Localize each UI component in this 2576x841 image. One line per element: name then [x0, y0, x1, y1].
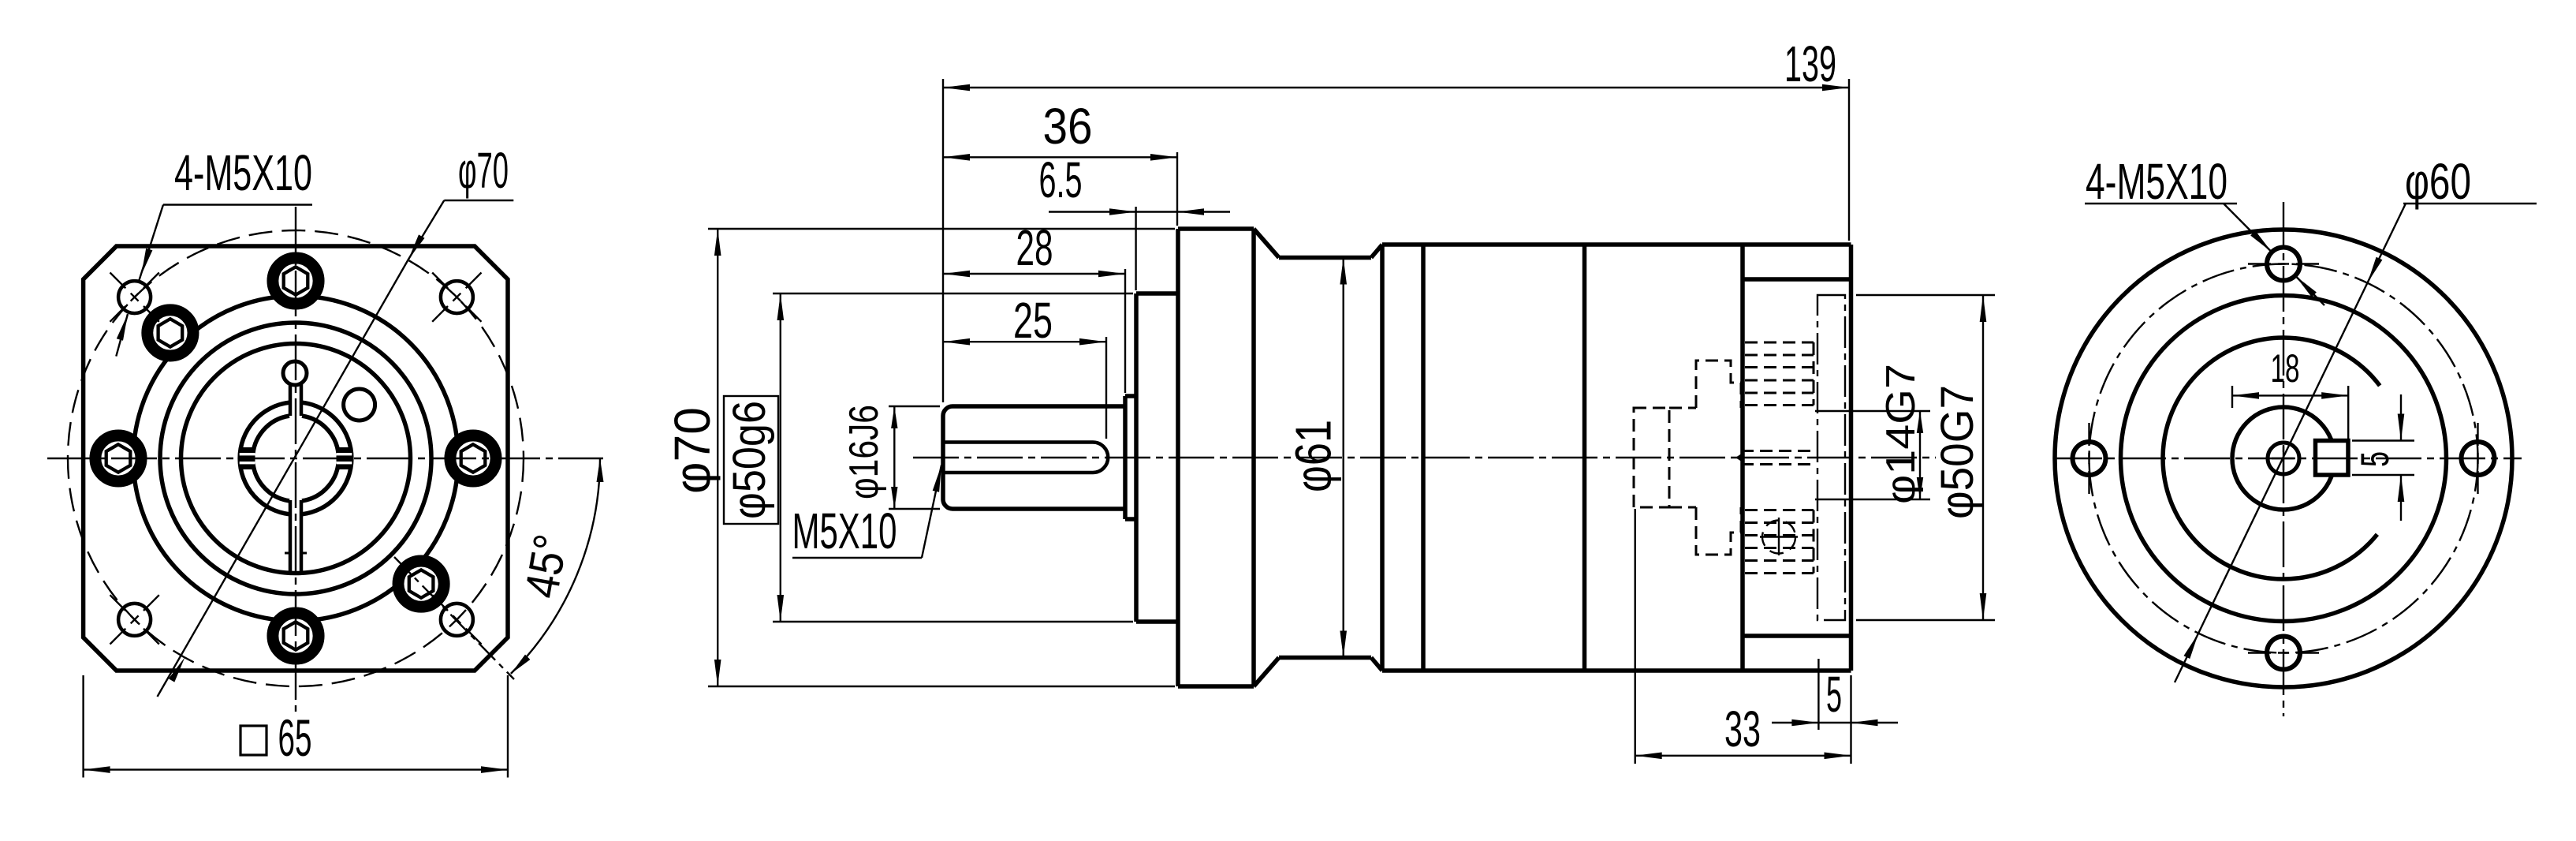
right view: vertical centerline [2283, 202, 2284, 716]
middle view: dimension 25 [1105, 337, 1107, 439]
left view: small pin hole upper right [344, 389, 375, 420]
svg-text:18: 18 [2271, 346, 2300, 391]
svg-text:φ70: φ70 [458, 142, 509, 199]
right view: 4x M5 holes [2267, 248, 2300, 281]
middle view: pilot boss phi50g6 [1134, 293, 1139, 622]
right view: cross ticks of holes [2296, 263, 2319, 264]
svg-text:4-M5X10: 4-M5X10 [2086, 153, 2227, 210]
middle view: dimension 36 [1176, 152, 1178, 226]
svg-text:65: 65 [278, 708, 312, 767]
svg-text:M5X10: M5X10 [792, 503, 897, 559]
left view: front face circle r172 [160, 323, 431, 594]
right view: center hole [2268, 443, 2299, 474]
middle view: shaft keyway [943, 440, 1093, 444]
middle view: dimension phi50g6 with boxed label [773, 293, 1133, 294]
middle view: dimension phi14G7 [1919, 411, 1921, 499]
svg-text:φ14G7: φ14G7 [1878, 364, 1924, 504]
middle view: dimension 33 [1634, 509, 1635, 764]
left view: horizontal centerline [47, 458, 603, 459]
middle view: phi14 bore lines / extension lines [1815, 410, 1930, 412]
left view: dash-dot crosses of corner holes [466, 273, 482, 289]
svg-text:φ61: φ61 [1285, 420, 1342, 492]
left view: square flange outline with chamfered corners [84, 246, 508, 671]
svg-text:45°: 45° [515, 530, 578, 601]
svg-text:φ70: φ70 [664, 407, 721, 494]
right view: circle phi50 recess [2121, 296, 2447, 622]
middle view: dimension 6.5 [1135, 207, 1136, 290]
left view: 4x M5 corner holes on phi70 circle [441, 281, 473, 313]
right view: bolt circle phi60 dash-dot [2090, 264, 2478, 653]
right view: key square [2316, 441, 2349, 476]
middle view: input shaft outline [943, 406, 1125, 509]
right view: open arc circle r153 [2163, 338, 2380, 579]
svg-text:φ50G7: φ50G7 [1932, 385, 1983, 519]
middle view: rear M5 hole position symbol [1762, 521, 1795, 554]
right view: dimension 5 key [2352, 439, 2414, 441]
left view: vertical centerline [295, 207, 296, 712]
svg-text:φ50g6: φ50g6 [724, 401, 775, 519]
left view: clamp slot walls [289, 384, 293, 416]
left view: clamp slot relief hole at top [283, 361, 307, 385]
left view: bolt circle phi70 dashed [68, 230, 524, 686]
right view: outer circle [2055, 230, 2512, 687]
left view: front face circle r145 [181, 344, 411, 574]
middle view: dimension 5 rear [1817, 659, 1819, 730]
middle view: hidden gear teeth dashed lines [1745, 342, 1814, 344]
middle view: hidden coupling hub dashed [1634, 408, 1669, 507]
left view: clamp bore outer ring r71 with slot gaps [240, 402, 289, 514]
middle view: dimension phi61 [1342, 258, 1344, 658]
middle view: dimension phi70 vertical [708, 228, 1175, 230]
middle view: taper neck to phi61 [1254, 229, 1279, 258]
svg-text:φ60: φ60 [2405, 153, 2471, 210]
svg-text:5: 5 [1826, 666, 1842, 723]
middle view: rear recess phi50G7 dash-dot rectangle [1817, 295, 1845, 620]
middle view: rear face [1849, 245, 1854, 671]
middle view: phi61 section [1279, 256, 1371, 260]
left view: 45deg dimension arc with arrows [511, 458, 600, 674]
left view: hex socket screws on r225 circle [273, 258, 319, 304]
svg-text:33: 33 [1724, 701, 1761, 757]
svg-text:φ16J6: φ16J6 [841, 405, 887, 499]
middle view: dimension 28 [1124, 269, 1126, 393]
left view: clamp bore inner ring r54 with slot gaps [253, 416, 289, 501]
left view: 45deg datum dash-dot line through SE hole [394, 557, 514, 679]
right view: horizontal centerline [2056, 458, 2522, 459]
svg-text:4-M5X10: 4-M5X10 [174, 144, 312, 201]
right view: dimension 18 [2231, 386, 2233, 408]
middle view: dimension phi50G7 [1856, 294, 1995, 296]
middle view: rear cap inner lines [1743, 277, 1851, 282]
middle view: hidden center tap hole in output [1741, 450, 1814, 452]
middle view: dimension phi16J6 [889, 406, 940, 407]
middle view: gearbox body outline [1380, 245, 1385, 671]
middle view: chamfer step phi61 to body [1371, 245, 1382, 258]
left view: front face circle r206 [133, 296, 458, 621]
left view: square-65 dimension at bottom [82, 675, 84, 778]
svg-text:6.5: 6.5 [1039, 151, 1083, 208]
svg-text:25: 25 [1013, 292, 1053, 349]
middle view: shaft collar [1123, 396, 1128, 519]
middle view: front flange phi70 [1176, 229, 1180, 686]
svg-text:36: 36 [1043, 98, 1093, 155]
right view: output hub circle r65 [2232, 407, 2335, 510]
middle view: horizontal centerline [913, 457, 1936, 458]
left view: key blocks between bore rings at left and right quadrants [240, 447, 255, 469]
svg-text:139: 139 [1784, 36, 1836, 92]
svg-text:5: 5 [2353, 451, 2397, 467]
middle view: dimension 139 [942, 79, 944, 402]
